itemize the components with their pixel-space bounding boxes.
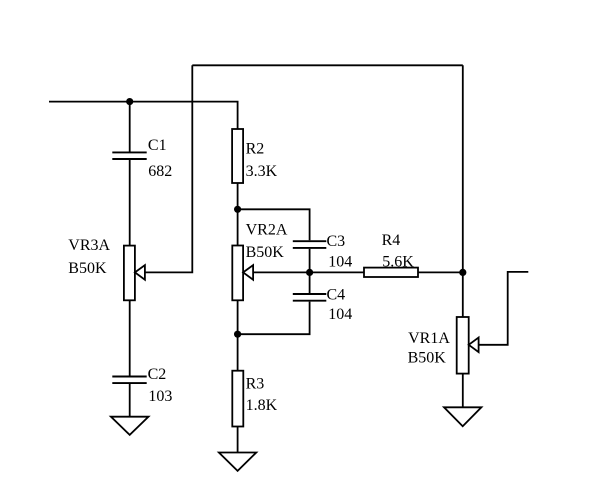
svg-text:B50K: B50K — [68, 260, 107, 277]
wire: right riser down to VR1A top — [462, 65, 464, 317]
wire: R3 top lead — [237, 334, 239, 371]
svg-text:3.3K: 3.3K — [246, 163, 278, 180]
capacitor C2 — [112, 377, 146, 384]
svg-text:R3: R3 — [246, 376, 265, 393]
svg-text:682: 682 — [148, 163, 172, 180]
wire: VR1A bottom lead — [462, 374, 464, 408]
wire: R3 bottom lead — [237, 427, 239, 453]
svg-text:VR3A: VR3A — [68, 237, 110, 254]
ground (right) — [444, 407, 481, 426]
svg-text:B50K: B50K — [246, 244, 285, 261]
resistor R4 body — [364, 268, 418, 277]
ground (left) — [111, 417, 149, 435]
wire: VR2A bottom lead — [237, 300, 239, 334]
wire: C1 bottom lead to VR3A top — [129, 160, 131, 246]
potentiometer VR2A body — [232, 246, 243, 301]
capacitor C1 — [112, 152, 146, 159]
potentiometer VR3A wiper arrow — [135, 265, 145, 280]
svg-text:VR2A: VR2A — [246, 221, 288, 238]
svg-text:104: 104 — [328, 253, 352, 270]
junction dot: VR2A bottom / R3 node — [234, 331, 241, 338]
wire: main horizontal net into R2 top lead — [49, 102, 238, 129]
wire: C4 top lead — [309, 272, 311, 293]
resistor R2 body — [232, 129, 243, 183]
ground (middle) — [219, 453, 256, 471]
wire: wiper bus from VR2A arrow to R4 — [253, 271, 364, 273]
wire: C4 bottom lead to VR2A bottom node — [238, 302, 310, 335]
potentiometer VR1A body — [457, 317, 469, 374]
wire: R2 bottom lead — [237, 183, 239, 209]
wire: VR2A top lead — [237, 209, 239, 245]
potentiometer VR3A body — [124, 246, 135, 301]
junction dot: R2 / VR2A / C3 node — [234, 206, 241, 213]
wire: VR3A bottom lead — [129, 300, 131, 375]
svg-text:C3: C3 — [327, 233, 346, 250]
svg-text:VR1A: VR1A — [408, 330, 450, 347]
wire: C3 bottom lead — [309, 249, 311, 273]
capacitor C4 — [293, 294, 327, 301]
wire: top rail — [192, 64, 463, 66]
svg-text:B50K: B50K — [408, 349, 447, 366]
wire: node over to C3 top plate — [238, 209, 310, 240]
svg-text:C1: C1 — [148, 137, 167, 154]
svg-text:103: 103 — [148, 388, 172, 405]
svg-text:5.6K: 5.6K — [382, 253, 414, 270]
svg-text:C2: C2 — [148, 366, 167, 383]
junction dot: C3 / C4 wiper node — [306, 269, 313, 276]
potentiometer VR2A wiper arrow — [243, 265, 253, 280]
junction dot: R4 / VR1A node — [459, 269, 466, 276]
resistor R3 body — [232, 371, 243, 427]
wire: R4 right lead — [418, 271, 463, 273]
svg-text:R2: R2 — [246, 141, 265, 158]
wire: VR1A wiper to right stub — [479, 272, 529, 345]
svg-text:104: 104 — [328, 306, 352, 323]
svg-text:R4: R4 — [382, 232, 401, 249]
capacitor C3 — [293, 241, 327, 248]
wire: C1 top lead — [129, 102, 131, 152]
wire: left riser and VR3A wiper feed — [145, 65, 192, 272]
junction dot: C1 tap on main wire — [126, 98, 133, 105]
svg-text:C4: C4 — [327, 286, 346, 303]
potentiometer VR1A wiper arrow — [469, 338, 479, 353]
svg-text:1.8K: 1.8K — [246, 397, 278, 414]
wire: C2 bottom lead — [129, 384, 131, 417]
